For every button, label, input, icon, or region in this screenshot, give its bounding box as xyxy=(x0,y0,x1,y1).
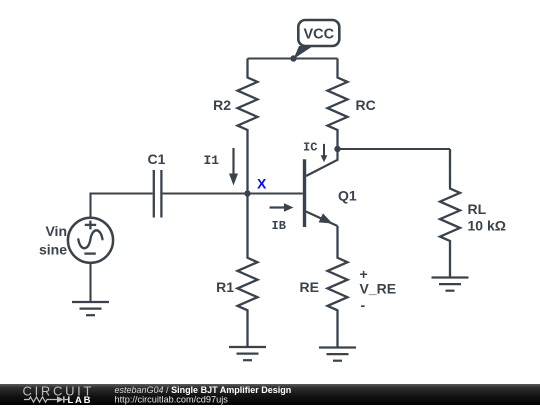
resistor RC xyxy=(328,59,348,150)
ground (below Vin) xyxy=(72,302,109,315)
resistor R1 xyxy=(238,194,258,348)
svg-text:RL: RL xyxy=(468,201,487,217)
transistor Q1 (NPN) xyxy=(303,149,338,227)
ground (below R1) xyxy=(229,347,266,360)
svg-text:RE: RE xyxy=(300,279,319,295)
power flag VCC xyxy=(294,20,340,59)
svg-text:10 kΩ: 10 kΩ xyxy=(468,218,506,234)
footer bar xyxy=(0,384,540,405)
svg-text:VCC: VCC xyxy=(303,27,334,43)
wire: collector node to RL xyxy=(338,148,451,150)
svg-text:estebanG04 / Single BJT Amplif: estebanG04 / Single BJT Amplifier Design xyxy=(115,385,292,395)
svg-text:IB: IB xyxy=(272,219,286,233)
current arrow I1 xyxy=(229,148,238,186)
svg-text:Q1: Q1 xyxy=(338,188,357,204)
source Vin sine xyxy=(68,218,113,263)
resistor R2 xyxy=(238,59,258,194)
resistor RE xyxy=(328,226,348,348)
svg-text:sine: sine xyxy=(39,242,67,258)
svg-text:I1: I1 xyxy=(204,153,220,168)
svg-text:Vin: Vin xyxy=(45,223,67,239)
ground (below RE) xyxy=(319,348,356,361)
resistor RL xyxy=(440,149,460,278)
svg-text:LAB: LAB xyxy=(68,395,93,405)
svg-text:http://circuitlab.com/cd97ujs: http://circuitlab.com/cd97ujs xyxy=(115,395,229,405)
ground (below RL) xyxy=(432,278,469,291)
junction: node X xyxy=(244,190,250,196)
svg-text:R1: R1 xyxy=(216,279,234,295)
wire: input corner to C1 xyxy=(91,194,153,219)
wire: VCC rail (top horizontal) xyxy=(248,57,338,59)
svg-text:-: - xyxy=(361,297,366,313)
svg-text:R2: R2 xyxy=(213,97,231,113)
wire: C1 to node X xyxy=(163,192,248,194)
wire: node X to base xyxy=(248,192,303,194)
current arrow IC xyxy=(321,144,328,162)
svg-text:V_RE: V_RE xyxy=(360,281,397,297)
logo symbol row: resistor + diode xyxy=(24,396,68,402)
junction: VCC tap node xyxy=(290,55,296,61)
capacitor C1 xyxy=(154,170,162,218)
svg-text:C1: C1 xyxy=(148,151,166,167)
junction: collector node xyxy=(334,146,340,152)
svg-text:RC: RC xyxy=(356,97,376,113)
svg-text:X: X xyxy=(257,176,267,192)
wire: source to ground xyxy=(89,263,91,302)
current arrow IB xyxy=(270,203,294,211)
svg-text:IC: IC xyxy=(303,141,317,155)
